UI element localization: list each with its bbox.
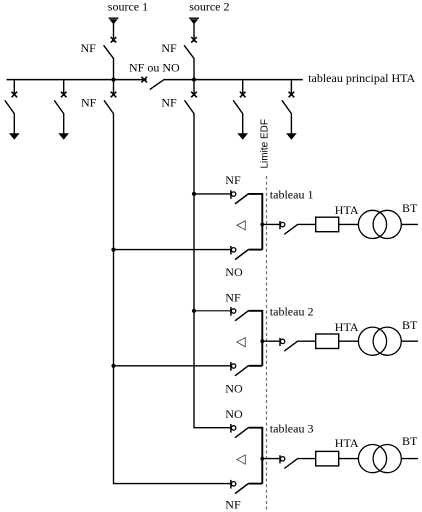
- wire BT output 3: [401, 458, 418, 460]
- wire to fuse 2: [298, 340, 316, 342]
- fuse F1: [316, 217, 339, 232]
- feeder 5 arrow: [237, 133, 248, 140]
- wire cable 2 vertical run: [194, 113, 231, 427]
- tableau 2 output switch blade: [284, 341, 297, 351]
- feeder 3 cross: [111, 92, 117, 98]
- svg-text:tableau 2: tableau 2: [270, 305, 314, 319]
- voltage indicator triangle tableau 1: [237, 221, 246, 230]
- feeder 2 switch blade: [54, 100, 64, 113]
- svg-text:NF: NF: [161, 96, 177, 110]
- source S2 arrival symbol: [189, 18, 199, 24]
- node cable2 / tableau 2 NF junction: [192, 309, 196, 313]
- svg-text:source 1: source 1: [108, 0, 148, 14]
- tableau 3 ring bus bottom link: [248, 483, 262, 485]
- disconnector NF source 1 (blade): [104, 45, 114, 58]
- feeder 3 switch blade NF: [104, 100, 114, 113]
- tableau 3 NF switch blade: [235, 484, 248, 494]
- svg-text:HTA: HTA: [335, 320, 359, 334]
- wire to tableau 1 NF switch: [194, 193, 231, 195]
- feeder 5 stub wire: [242, 80, 244, 96]
- node source 2 / bus junction: [192, 78, 196, 82]
- tableau 2 output switch contact circle: [280, 338, 285, 346]
- svg-text:BT: BT: [402, 434, 418, 448]
- node tableau 1 output junction: [260, 223, 264, 227]
- feeder 4 cross: [191, 92, 197, 98]
- transformer T3 secondary winding: [373, 445, 401, 473]
- wire to fuse 3: [298, 458, 316, 460]
- feeder 6 switch blade: [282, 100, 292, 113]
- svg-text:source 2: source 2: [189, 0, 229, 14]
- tableau 3 output switch contact circle: [280, 455, 285, 463]
- wire source 1 lower drop: [113, 58, 115, 80]
- tableau 2 NO switch blade: [235, 366, 248, 376]
- source 1 fault-make cross: [111, 37, 117, 43]
- feeder 5 switch blade: [233, 100, 243, 113]
- wire to tableau 2 NO switch: [114, 365, 231, 367]
- tableau 1 ring bus top link: [248, 194, 262, 250]
- wire to tableau 1 NO switch: [114, 249, 231, 251]
- voltage indicator triangle tableau 2: [237, 338, 246, 347]
- svg-text:BT: BT: [402, 201, 418, 215]
- svg-text:NO: NO: [225, 265, 243, 279]
- tableau 2 NF switch blade: [235, 311, 248, 321]
- node cable1 / tableau 1 NO junction: [111, 248, 115, 252]
- feeder 1 arrow: [9, 133, 20, 140]
- feeder 6 arrow: [286, 133, 297, 140]
- feeder 2 cross: [61, 92, 67, 98]
- transformer T3 primary winding: [358, 445, 386, 473]
- wire to fuse 1: [298, 223, 316, 225]
- svg-text:NO: NO: [225, 381, 243, 395]
- tableau 3 NO switch blade: [235, 428, 248, 438]
- svg-text:HTA: HTA: [335, 436, 359, 450]
- wire source 1 upper drop: [113, 23, 115, 42]
- feeder 2 arrow: [58, 133, 69, 140]
- wire fuse 2 to transformer: [339, 340, 359, 342]
- bus coupler cross: [141, 77, 147, 83]
- wire source 2 lower drop: [193, 58, 195, 80]
- wire fuse 1 to transformer: [339, 223, 359, 225]
- tableau 1 NO switch blade: [235, 250, 248, 260]
- tableau 2 ring bus top link: [248, 311, 262, 366]
- svg-text:NF: NF: [225, 498, 241, 512]
- fuse F2: [316, 334, 339, 349]
- tableau 1 output switch contact circle: [280, 221, 285, 229]
- svg-text:NF: NF: [81, 41, 97, 55]
- tableau 2 NF switch contact circle: [231, 307, 236, 316]
- feeder 2 outgoing wire: [63, 113, 65, 134]
- feeder 3 stub wire: [113, 80, 115, 96]
- tableau 3 ring bus top link: [248, 428, 262, 484]
- transformer T1 primary winding: [358, 210, 386, 238]
- wire cable 1 vertical run: [114, 113, 231, 483]
- feeder 1 switch blade: [5, 100, 15, 113]
- tableau 2 ring bus bottom link: [248, 365, 262, 367]
- svg-text:Limite EDF: Limite EDF: [260, 119, 271, 168]
- svg-text:HTA: HTA: [335, 203, 359, 217]
- node cable2 / tableau 1 NF junction: [192, 192, 196, 196]
- svg-text:NF ou NO: NF ou NO: [129, 61, 180, 75]
- svg-text:NF: NF: [225, 173, 241, 187]
- tableau 3 output switch blade: [284, 459, 297, 469]
- tableau 1 NF switch blade: [235, 194, 248, 204]
- svg-text:tableau principal HTA: tableau principal HTA: [308, 71, 415, 85]
- node tableau 3 output junction: [260, 457, 264, 461]
- transformer T1 secondary winding: [373, 210, 401, 238]
- source 2 fault-make cross: [191, 37, 197, 43]
- busbar left section: [7, 79, 147, 81]
- feeder 5 outgoing wire: [242, 113, 244, 134]
- feeder 1 cross: [12, 92, 18, 98]
- feeder 2 stub wire: [63, 80, 65, 96]
- wire to tableau 2 NF switch: [194, 310, 231, 312]
- bus coupler blade NF ou NO: [150, 80, 164, 90]
- tableau 3 NF switch contact circle: [231, 480, 236, 489]
- svg-text:NO: NO: [225, 407, 243, 421]
- svg-text:BT: BT: [402, 318, 418, 332]
- tableau 1 NF switch contact circle: [231, 190, 236, 199]
- node tableau 2 output junction: [260, 339, 264, 343]
- feeder 1 stub wire: [13, 80, 15, 96]
- disconnector NF source 2 (blade): [184, 45, 194, 58]
- feeder 6 outgoing wire: [290, 113, 292, 134]
- transformer T2 primary winding: [358, 327, 386, 355]
- node cable1 / tableau 2 NO junction: [111, 364, 115, 368]
- wire BT output 2: [401, 340, 418, 342]
- svg-text:NF: NF: [81, 96, 97, 110]
- wire source 2 upper drop: [193, 23, 195, 42]
- wire tableau 2 output: [262, 340, 280, 342]
- feeder 4 switch blade NF: [185, 100, 195, 113]
- svg-text:NF: NF: [161, 41, 177, 55]
- node source 1 / bus junction: [111, 78, 115, 82]
- feeder 6 cross: [289, 92, 295, 98]
- feeder 4 stub wire: [193, 80, 195, 96]
- tableau 1 ring bus bottom link: [248, 249, 262, 251]
- source S1 arrival symbol: [109, 18, 119, 24]
- tableau 3 NO switch contact circle: [231, 424, 236, 433]
- transformer T2 secondary winding: [373, 327, 401, 355]
- voltage indicator triangle tableau 3: [237, 455, 246, 464]
- busbar right section: [164, 79, 303, 81]
- wire tableau 1 output: [262, 223, 280, 225]
- EDF boundary dashed line: [266, 176, 268, 512]
- feeder 6 stub wire: [290, 80, 292, 96]
- svg-text:tableau 1: tableau 1: [270, 188, 314, 202]
- wire fuse 3 to transformer: [339, 458, 359, 460]
- feeder 5 cross: [240, 92, 246, 98]
- fuse F3: [316, 451, 339, 466]
- tableau 1 NO switch contact circle: [231, 246, 236, 255]
- tableau 2 NO switch contact circle: [231, 362, 236, 371]
- svg-text:tableau 3: tableau 3: [270, 421, 314, 435]
- tableau 1 output switch blade: [284, 224, 297, 234]
- svg-text:NF: NF: [225, 291, 241, 305]
- wire BT output 1: [401, 223, 418, 225]
- wire tableau 3 output: [262, 458, 280, 460]
- feeder 1 outgoing wire: [13, 113, 15, 134]
